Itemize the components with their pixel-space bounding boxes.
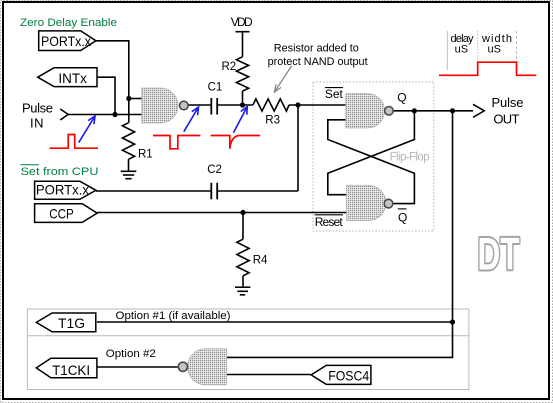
svg-text:INTx: INTx xyxy=(58,70,87,86)
svg-text:Flip-Flop: Flip-Flop xyxy=(390,152,430,164)
svg-text:Option #1 (if available): Option #1 (if available) xyxy=(116,310,231,322)
svg-text:R3: R3 xyxy=(265,115,280,127)
svg-text:OUT: OUT xyxy=(493,112,519,127)
svg-text:IN: IN xyxy=(30,116,44,131)
svg-text:VDD: VDD xyxy=(231,15,253,29)
svg-text:Reset: Reset xyxy=(315,215,344,229)
svg-text:Resistor added to: Resistor added to xyxy=(274,43,359,55)
svg-text:Zero Delay Enable: Zero Delay Enable xyxy=(20,17,117,29)
svg-text:uS: uS xyxy=(487,43,500,55)
svg-text:CCP: CCP xyxy=(49,206,73,222)
svg-text:FOSC4: FOSC4 xyxy=(328,367,369,383)
svg-text:Q: Q xyxy=(397,91,406,105)
svg-text:DT: DT xyxy=(478,229,520,280)
svg-text:T1CKI: T1CKI xyxy=(52,362,90,378)
svg-text:R2: R2 xyxy=(222,61,237,73)
svg-text:PORTx.x: PORTx.x xyxy=(41,33,91,49)
svg-text:uS: uS xyxy=(455,43,468,55)
svg-text:C2: C2 xyxy=(207,164,222,176)
svg-text:Set from CPU: Set from CPU xyxy=(21,166,99,178)
svg-text:Option #2: Option #2 xyxy=(106,348,156,360)
svg-text:Pulse: Pulse xyxy=(492,95,524,110)
svg-text:Set: Set xyxy=(325,87,344,101)
svg-text:R1: R1 xyxy=(138,149,153,161)
svg-text:T1G: T1G xyxy=(58,315,85,331)
svg-text:protect NAND output: protect NAND output xyxy=(268,56,368,68)
svg-text:R4: R4 xyxy=(253,255,268,267)
svg-text:C1: C1 xyxy=(208,82,223,94)
svg-text:PORTx.x: PORTx.x xyxy=(36,182,89,198)
svg-text:Pulse: Pulse xyxy=(22,101,53,116)
svg-text:Q: Q xyxy=(398,210,407,224)
